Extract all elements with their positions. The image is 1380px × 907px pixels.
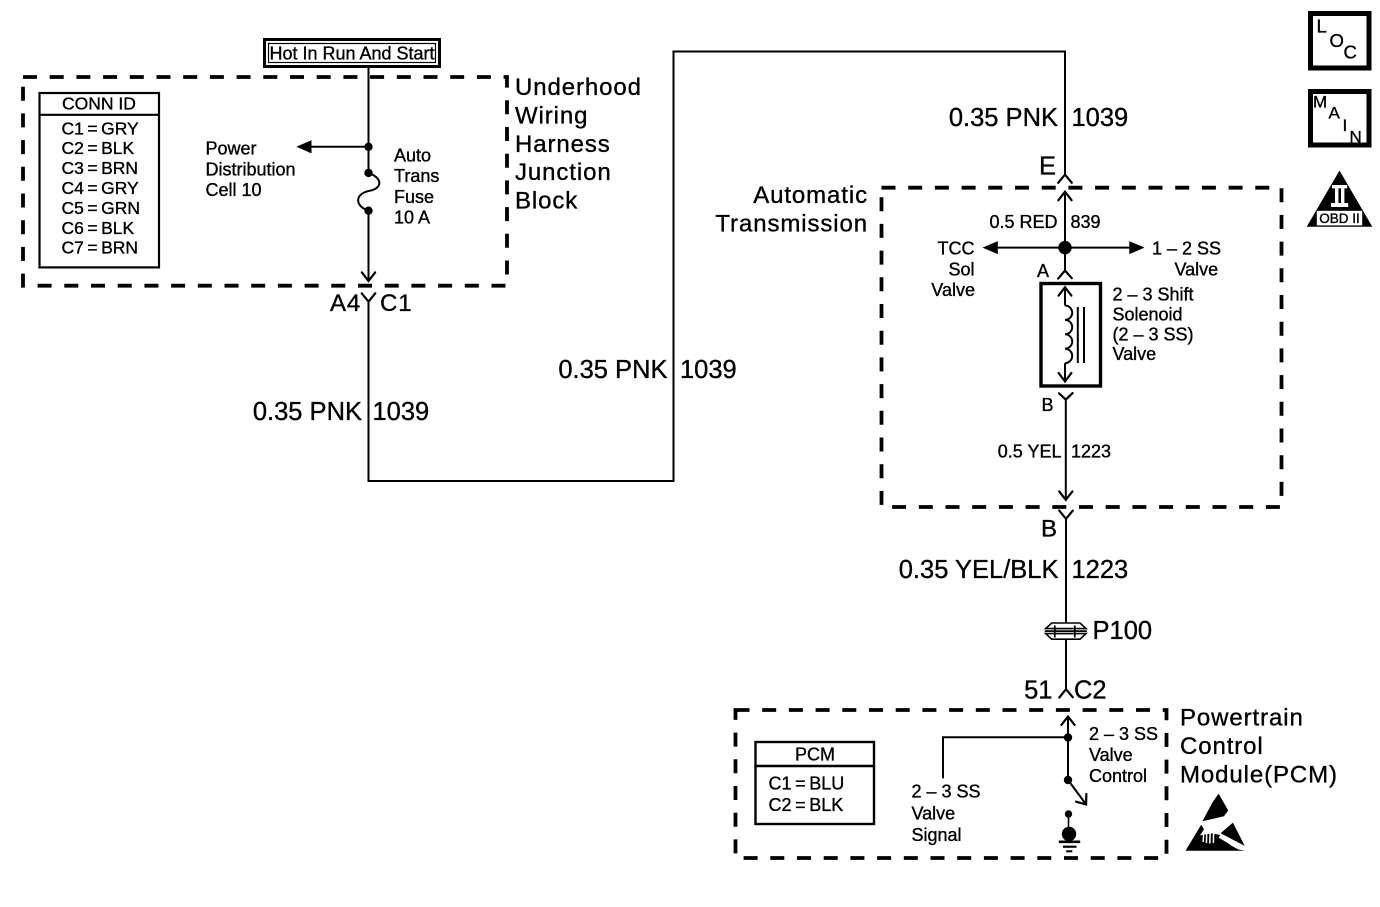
svg-text:0.35 PNK: 0.35 PNK xyxy=(949,104,1058,132)
svg-text:A: A xyxy=(1329,104,1341,123)
node: power distribution branch junction xyxy=(364,143,372,151)
solenoid: 2-3 shift solenoid (2-3 SS) valve xyxy=(1041,284,1101,387)
svg-text:A4: A4 xyxy=(330,290,361,317)
label: 0.5 RED 839 xyxy=(989,212,1100,232)
svg-text:(2 – 3 SS): (2 – 3 SS) xyxy=(1113,324,1194,344)
svg-text:2 – 3 Shift: 2 – 3 Shift xyxy=(1113,285,1194,305)
svg-text:N: N xyxy=(1350,128,1362,147)
node: PCM input junction xyxy=(1064,733,1072,741)
icon: MAIN page reference xyxy=(1311,92,1370,147)
svg-text:Solenoid: Solenoid xyxy=(1113,304,1183,324)
label: Powertrain Control Module(PCM) xyxy=(1180,705,1338,789)
label: 0.35 YEL/BLK 1223 xyxy=(899,556,1128,584)
svg-text:Valve: Valve xyxy=(1089,745,1133,765)
automatic transmission dashed box xyxy=(882,188,1282,507)
svg-text:10 A: 10 A xyxy=(394,208,430,228)
fuse: Auto Trans Fuse 10 A xyxy=(358,169,379,215)
label: 0.35 PNK 1039 (left leg) xyxy=(253,398,429,426)
svg-text:Valve: Valve xyxy=(912,803,956,823)
svg-text:0.35 PNK: 0.35 PNK xyxy=(558,356,667,384)
svg-text:Power: Power xyxy=(206,139,257,159)
svg-text:OBD II: OBD II xyxy=(1319,211,1360,226)
svg-text:C: C xyxy=(1344,42,1357,63)
wire: fuse output down to junction block edge (open arrow) xyxy=(362,211,375,281)
svg-text:839: 839 xyxy=(1071,212,1101,232)
svg-text:Fuse: Fuse xyxy=(394,187,434,207)
svg-text:Harness: Harness xyxy=(515,131,611,158)
label: Auto Trans Fuse 10 A xyxy=(394,145,439,227)
svg-text:CONN ID: CONN ID xyxy=(62,94,136,114)
svg-text:Control: Control xyxy=(1089,766,1147,786)
wire: 0.35 PNK 1039 run from A4/C1 to transmission connector E xyxy=(369,52,1066,482)
svg-text:Trans: Trans xyxy=(394,166,439,186)
svg-text:0.5 RED: 0.5 RED xyxy=(989,212,1057,232)
svg-text:Valve: Valve xyxy=(1175,259,1219,279)
power label box "Hot In Run And Start" xyxy=(265,40,440,67)
icon: ESD static sensitive device warning xyxy=(1186,794,1247,852)
wire: stub to 2-3 SS Valve Signal xyxy=(943,737,1068,778)
svg-text:P100: P100 xyxy=(1093,617,1153,645)
svg-text:1 – 2 SS: 1 – 2 SS xyxy=(1152,239,1221,259)
connector pin A of solenoid xyxy=(1037,261,1072,281)
svg-text:Junction: Junction xyxy=(515,159,612,186)
node: solenoid feed junction xyxy=(1058,241,1071,254)
label: 0.35 PNK 1039 (right leg) xyxy=(949,104,1128,132)
svg-text:Valve: Valve xyxy=(1113,344,1157,364)
wire: E into solenoid feed junction (open arrow up) xyxy=(1058,192,1071,271)
svg-text:Module(PCM): Module(PCM) xyxy=(1180,762,1338,789)
svg-text:1039: 1039 xyxy=(1072,104,1129,132)
svg-text:Wiring: Wiring xyxy=(515,102,588,129)
svg-text:O: O xyxy=(1330,30,1344,51)
wire: branch to TCC Sol Valve (left arrow) xyxy=(983,241,1066,254)
wire: P100 to PCM pin 51 xyxy=(1065,639,1067,689)
svg-text:Block: Block xyxy=(515,188,578,215)
label: 0.35 PNK 1039 (middle leg) xyxy=(558,356,736,384)
svg-text:Powertrain: Powertrain xyxy=(1180,705,1304,732)
label: Underhood Wiring Harness Junction Block xyxy=(515,74,642,215)
svg-text:B: B xyxy=(1041,516,1058,543)
svg-text:PCM: PCM xyxy=(795,745,835,765)
svg-text:0.35 PNK: 0.35 PNK xyxy=(253,398,362,426)
svg-text:0.35 YEL/BLK: 0.35 YEL/BLK xyxy=(899,556,1059,584)
label: 2-3 SS Valve Control xyxy=(1089,724,1158,786)
svg-text:C2 = BLK: C2 = BLK xyxy=(769,795,844,815)
output stage contact and ground xyxy=(1062,810,1076,841)
svg-text:C1 = BLU: C1 = BLU xyxy=(769,774,845,794)
svg-text:Distribution: Distribution xyxy=(206,159,296,179)
node: switch pivot junction xyxy=(1064,776,1072,784)
svg-text:1223: 1223 xyxy=(1072,556,1129,584)
svg-text:Auto: Auto xyxy=(394,145,431,165)
label: 2-3 SS Valve Signal xyxy=(912,782,981,846)
svg-text:Cell 10: Cell 10 xyxy=(206,180,262,200)
wire: pin 51 into PCM logic (open arrow up) xyxy=(1061,717,1074,781)
splice pass-through P100 xyxy=(1045,617,1152,645)
svg-text:Valve: Valve xyxy=(931,280,975,300)
svg-text:C7 = BRN: C7 = BRN xyxy=(62,238,139,258)
connector E into automatic transmission xyxy=(1039,153,1072,183)
svg-text:Control: Control xyxy=(1180,733,1264,760)
svg-text:1223: 1223 xyxy=(1071,442,1111,462)
svg-text:A: A xyxy=(1037,261,1049,281)
svg-text:TCC: TCC xyxy=(938,239,975,259)
ground xyxy=(1059,842,1080,852)
wire: 0.35 YEL/BLK 1223 from case to P100 xyxy=(1065,519,1067,623)
PCM dashed box xyxy=(736,710,1167,858)
svg-text:C1: C1 xyxy=(380,290,412,317)
icon: OBD II triangle xyxy=(1307,171,1373,227)
svg-text:1039: 1039 xyxy=(680,356,737,384)
svg-text:Underhood: Underhood xyxy=(515,74,642,101)
svg-text:Hot In Run And Start: Hot In Run And Start xyxy=(269,44,434,64)
svg-text:M: M xyxy=(1313,93,1327,112)
svg-text:0.5 YEL: 0.5 YEL xyxy=(998,442,1062,462)
wire: branch to Power Distribution Cell 10 (left arrow) xyxy=(296,140,368,153)
label: 0.5 YEL 1223 xyxy=(998,442,1111,462)
label: TCC Sol Valve xyxy=(931,239,975,301)
svg-text:E: E xyxy=(1039,153,1056,181)
CONN ID table xyxy=(40,93,160,267)
svg-text:Transmission: Transmission xyxy=(715,210,868,237)
svg-text:Automatic: Automatic xyxy=(753,182,868,209)
svg-text:C2: C2 xyxy=(1074,677,1107,705)
svg-text:C2 = BLK: C2 = BLK xyxy=(62,138,135,158)
connector A4 / C1 at junction block output xyxy=(330,290,412,317)
svg-text:C1 = GRY: C1 = GRY xyxy=(62,118,140,138)
svg-text:2 – 3 SS: 2 – 3 SS xyxy=(912,782,981,802)
svg-text:L: L xyxy=(1317,16,1327,37)
wire: branch to 1-2 SS Valve (right arrow) xyxy=(1065,241,1145,254)
svg-text:1039: 1039 xyxy=(373,398,430,426)
svg-text:51: 51 xyxy=(1024,677,1052,705)
svg-text:C3 = BRN: C3 = BRN xyxy=(62,158,139,178)
label: Power Distribution Cell 10 xyxy=(206,139,296,201)
label: Automatic Transmission xyxy=(715,182,868,237)
svg-text:I: I xyxy=(1343,116,1348,135)
wire: 0.5 YEL 1223 from pin B to transmission case (open arrow down) xyxy=(1059,400,1072,500)
connector pin B of solenoid xyxy=(1042,393,1073,415)
switch: 2-3 SS valve driver arm xyxy=(1068,780,1091,808)
svg-text:C5 = GRN: C5 = GRN xyxy=(62,198,141,218)
svg-text:C4 = GRY: C4 = GRY xyxy=(62,178,140,198)
wire: hot feed from label box down to branch junction xyxy=(368,67,370,170)
svg-text:Signal: Signal xyxy=(912,825,962,845)
svg-text:Sol: Sol xyxy=(948,259,974,279)
svg-text:B: B xyxy=(1042,395,1054,415)
svg-text:C6 = BLK: C6 = BLK xyxy=(62,218,135,238)
icon: LOC page reference xyxy=(1311,14,1370,69)
connector B at transmission case xyxy=(1041,511,1073,543)
svg-text:2 – 3 SS: 2 – 3 SS xyxy=(1089,724,1158,744)
underhood junction block dashed box xyxy=(23,77,507,286)
PCM connector id table xyxy=(756,742,875,824)
connector 51 / C2 into PCM xyxy=(1024,677,1106,705)
label: 1-2 SS Valve xyxy=(1152,239,1221,280)
label: 2-3 Shift Solenoid (2-3 SS) Valve xyxy=(1113,285,1194,365)
